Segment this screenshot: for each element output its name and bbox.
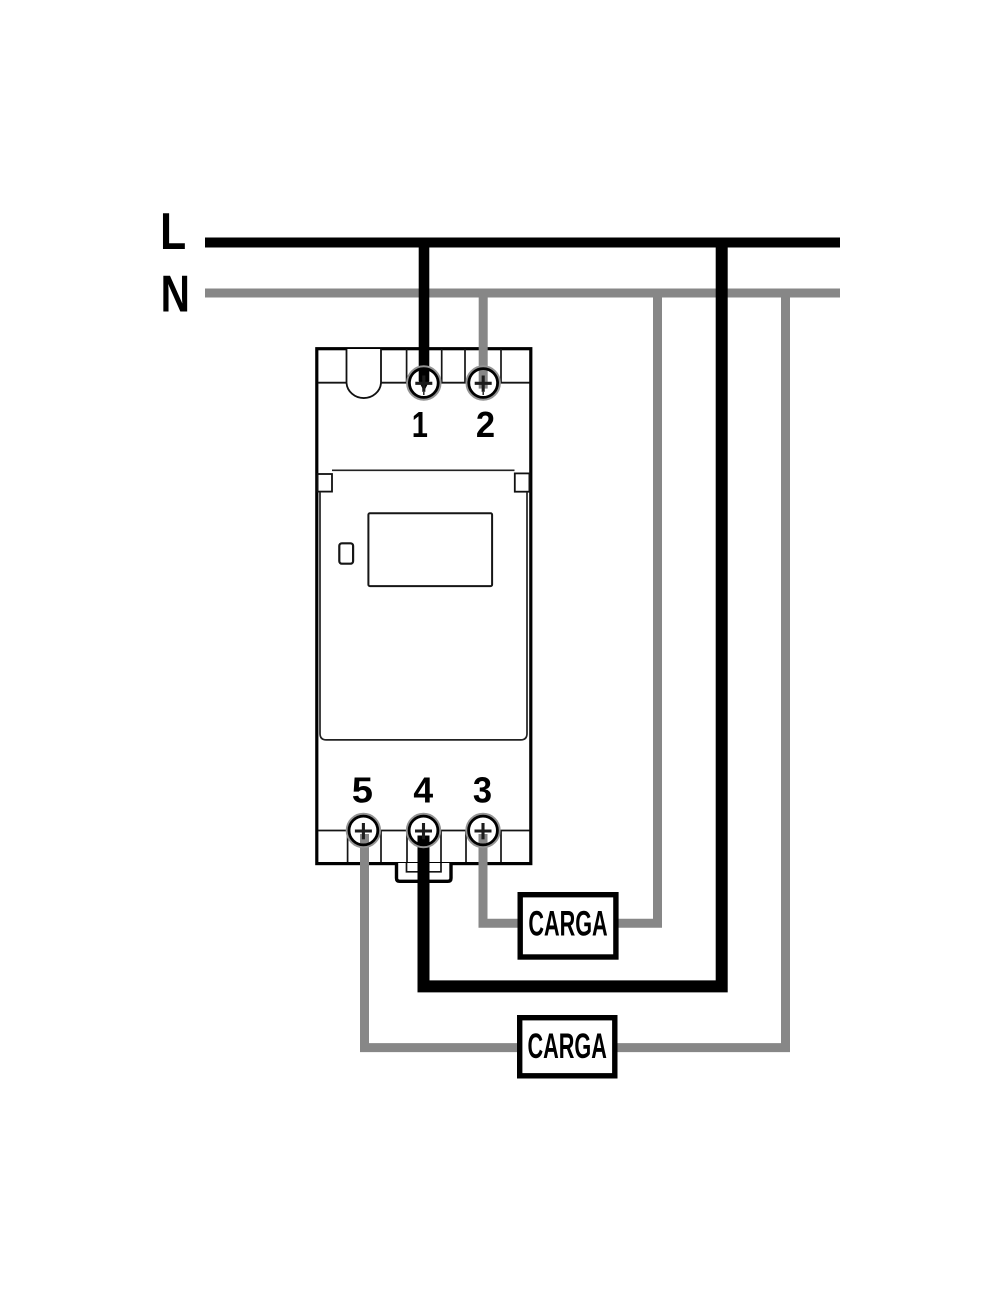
- terminal hole white 1: [408, 367, 439, 398]
- DIN clip tab inner: [407, 863, 442, 872]
- load box CARGA 2: [520, 1018, 615, 1076]
- button: [339, 543, 353, 563]
- terminal ring 5: [347, 814, 380, 847]
- top strip divider d: [500, 349, 502, 383]
- wire N line: [205, 289, 840, 298]
- svg-text:1: 1: [412, 404, 428, 445]
- top strip divider a: [406, 349, 408, 383]
- top strip divider b: [441, 349, 443, 383]
- terminal hole white 2: [468, 367, 499, 398]
- wire N to terminal 2: [479, 293, 488, 389]
- bottom strip divider f: [500, 831, 502, 863]
- terminal ring 1: [407, 366, 440, 399]
- screw cross 3: [475, 823, 492, 839]
- wire terminal 4 to L: [424, 243, 722, 987]
- face plate sides and bottom: [320, 492, 527, 740]
- empty terminal slot U: [347, 349, 382, 398]
- face plate clip left: [318, 474, 332, 492]
- bottom strip divider b: [380, 831, 382, 863]
- terminal ring 4: [407, 814, 440, 847]
- screw cross 1: [415, 376, 432, 396]
- timer device body: [317, 349, 531, 864]
- wire terminal 3 to CARGA 1 to N: [483, 293, 658, 923]
- svg-text:CARGA: CARGA: [528, 1027, 607, 1067]
- top strip divider c: [464, 349, 466, 383]
- bottom strip divider d: [440, 831, 442, 863]
- terminal ring 2: [467, 366, 500, 399]
- load box CARGA 1: [520, 895, 616, 957]
- screw cross 2: [475, 376, 492, 396]
- terminal hole white 5: [348, 815, 379, 846]
- terminal ring 3: [466, 814, 499, 847]
- face plate clip right: [515, 473, 530, 491]
- bottom strip divider a: [347, 831, 349, 863]
- top terminal strip line: [318, 382, 530, 384]
- svg-text:3: 3: [473, 770, 492, 811]
- wire terminal 5 to CARGA 2 to N: [365, 293, 786, 1048]
- screw cross 5: [355, 823, 372, 839]
- svg-text:CARGA: CARGA: [528, 904, 607, 944]
- svg-text:5: 5: [352, 769, 373, 810]
- bottom strip divider e: [465, 831, 467, 863]
- wire L to terminal 1: [419, 242, 430, 392]
- svg-text:4: 4: [413, 769, 433, 810]
- display window: [368, 513, 492, 586]
- bottom terminal strip line: [318, 830, 530, 832]
- terminal hole white 3: [467, 815, 498, 846]
- svg-text:N: N: [161, 265, 190, 323]
- bottom strip divider c: [406, 831, 408, 863]
- wire L line: [205, 238, 840, 248]
- screw cross 4: [415, 823, 432, 839]
- svg-text:2: 2: [476, 404, 495, 445]
- terminal hole white 4: [408, 815, 439, 846]
- face plate top edge: [332, 469, 515, 471]
- DIN clip tab outer: [397, 863, 452, 881]
- svg-text:L: L: [160, 203, 186, 261]
